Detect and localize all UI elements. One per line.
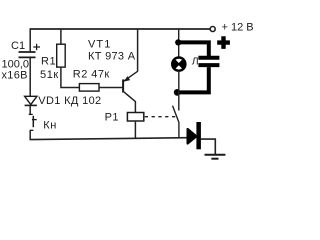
junction dot — [174, 89, 181, 96]
capacitor C1 — [19, 44, 41, 58]
resistor R1 — [57, 29, 65, 87]
svg-text:х16В: х16В — [2, 70, 28, 82]
relay coil P1 — [127, 113, 143, 122]
lamp Л — [172, 58, 185, 71]
wire R1 to R2 — [60, 87, 79, 89]
wire R2 to base — [99, 87, 123, 89]
capacitor C2 plates — [198, 56, 219, 60]
svg-text:VT1: VT1 — [88, 39, 111, 51]
wire bottom rail — [30, 138, 188, 140]
junction dot — [175, 39, 181, 45]
svg-text:100,0: 100,0 — [2, 58, 30, 70]
bold wire to C2 top — [178, 42, 209, 56]
diode VD2 — [188, 122, 201, 149]
wire diode to ground — [201, 139, 215, 154]
svg-text:Л: Л — [192, 56, 199, 68]
wire lamp to contact — [178, 71, 180, 111]
svg-text:R1: R1 — [41, 56, 56, 68]
relay contact lever — [173, 106, 179, 139]
bold wire C2 bottom to lamp node — [178, 67, 209, 92]
node +12V terminal — [210, 27, 215, 32]
svg-text:Р1: Р1 — [105, 112, 119, 124]
svg-text:C1: C1 — [11, 40, 25, 52]
resistor R2 — [79, 84, 99, 92]
wire left rail bottom — [29, 130, 31, 139]
svg-text:+ 12 В: + 12 В — [222, 22, 254, 34]
svg-text:R2 47к: R2 47к — [73, 69, 110, 81]
diode VD1 — [25, 96, 37, 105]
wire coil to bottom rail — [134, 121, 136, 139]
svg-text:VD1 КД 102: VD1 КД 102 — [38, 95, 101, 107]
ground — [205, 155, 226, 159]
pushbutton Кн — [29, 114, 37, 130]
svg-text:51к: 51к — [40, 69, 59, 81]
dashed mechanical link — [145, 116, 176, 118]
wire top rail +12V — [30, 28, 210, 30]
wire left rail mid — [29, 57, 31, 96]
wire left rail top — [29, 28, 31, 51]
wire left rail below VD1 — [29, 105, 31, 114]
transistor VT1 — [123, 29, 138, 113]
wire lamp branch from top rail — [178, 29, 180, 57]
svg-text:Кн: Кн — [43, 120, 57, 132]
bold plus polarity — [217, 36, 230, 49]
svg-text:КТ 973 А: КТ 973 А — [88, 51, 136, 63]
